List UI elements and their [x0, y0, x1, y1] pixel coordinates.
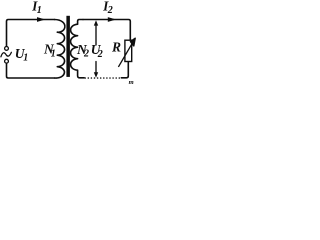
- svg-text:2: 2: [83, 49, 89, 60]
- svg-text:2: 2: [107, 5, 113, 16]
- label U1: [15, 46, 28, 64]
- voltage U2 arrow line upper segment: [95, 25, 97, 46]
- current I2 arrowhead: [108, 17, 116, 22]
- label N2: [76, 42, 89, 60]
- wire bottom-left (primary bottom): [7, 63, 55, 78]
- transformer iron core: [66, 16, 70, 77]
- label U2: [91, 42, 103, 60]
- svg-text:m: m: [129, 79, 134, 86]
- label N1: [43, 42, 56, 60]
- wire top-left (primary top): [7, 20, 55, 47]
- svg-text:1: 1: [37, 5, 42, 16]
- svg-text:2: 2: [97, 49, 103, 60]
- terminal circle bottom (source U1 -): [5, 59, 9, 63]
- svg-text:1: 1: [23, 52, 28, 63]
- wire dotted bottom-right: [84, 77, 120, 79]
- U2 arrowhead up: [94, 20, 98, 25]
- svg-text:1: 1: [51, 48, 56, 59]
- winding N1 (primary coil): [55, 20, 65, 79]
- label I2: [102, 0, 113, 16]
- resistor R (variable): [118, 38, 135, 67]
- rheostat diagonal arrow: [118, 43, 132, 67]
- AC tilde symbol: [1, 52, 12, 57]
- wire top-right (secondary top): [83, 20, 130, 41]
- U2 arrowhead down: [94, 72, 98, 77]
- voltage U2 arrow line lower segment: [95, 62, 97, 74]
- winding N2 (secondary coil): [71, 20, 85, 78]
- label I1: [31, 0, 42, 16]
- current I1 arrowhead: [37, 17, 45, 22]
- terminal circle top (source U1 +): [5, 47, 9, 51]
- svg-text:R: R: [111, 39, 121, 54]
- wire resistor bottom to corner: [121, 62, 128, 78]
